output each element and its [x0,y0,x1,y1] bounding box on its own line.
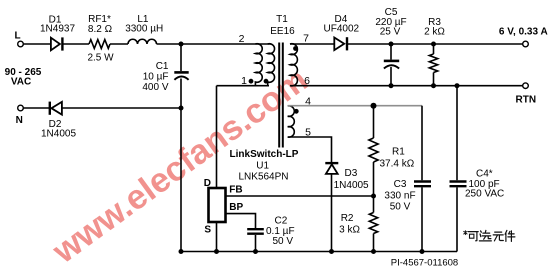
svg-text:2.5 W: 2.5 W [87,53,114,64]
label C4* 100pF 250VAC [465,169,504,200]
phasing dot pin1 col A [249,79,254,84]
junction bottom rail S [214,249,219,254]
secondary winding pins 7-6 [290,44,297,86]
svg-text:2 kΩ: 2 kΩ [424,27,445,38]
svg-text:1N4005: 1N4005 [41,129,76,140]
resistor R3 [429,44,437,86]
label RF1* 8.2ohm 2.5W [87,14,114,64]
label R2 3kohm [339,213,360,235]
junction R1 top [371,103,377,109]
resistor RF1 [89,40,110,49]
wire pin6 to RTN [290,85,523,87]
svg-text:FB: FB [229,185,242,196]
label LinkSwitch-LP U1 LNK564PN [230,149,299,183]
wire pin4 to C3 (gray) [288,105,422,107]
junction C4 top [455,83,460,88]
junction bottom rail C2 [253,249,258,254]
capacitor C4 [450,182,467,252]
svg-text:UF4002: UF4002 [324,24,360,35]
label C5 220uF 25V [375,7,406,38]
capacitor C1 [174,44,188,108]
svg-text:400 V: 400 V [142,82,168,93]
label optional component note [464,230,515,241]
wire RF1 to L1 [110,43,128,45]
diode D3 [325,163,338,174]
label C1 10uF 400V [142,61,169,93]
svg-text:U1: U1 [256,161,269,172]
svg-text:1N4005: 1N4005 [334,180,369,191]
phasing dot pin4 [294,109,299,114]
wire D1 to RF1 [62,43,89,45]
label D2 1N4005 [41,119,76,140]
resistor R2 [369,196,377,252]
svg-text:1N4937: 1N4937 [40,24,75,35]
wire L to D1 [23,43,50,45]
junction R3 top [431,42,436,47]
wire BP to C2 [226,214,256,228]
bottom rail [181,251,457,253]
svg-text:3 kΩ: 3 kΩ [339,224,360,235]
watermark www.elecfans.com [45,61,315,270]
junction FB node [371,194,376,199]
svg-text:RTN: RTN [516,94,537,105]
svg-text:R2: R2 [341,213,354,224]
U1 body [209,188,226,222]
terminal N [18,105,24,111]
phasing dot pin7 [293,46,298,51]
label D4 UF4002 [324,14,360,35]
svg-text:3300 µH: 3300 µH [125,24,163,35]
svg-text:C1: C1 [156,61,169,72]
diode D2 [50,102,62,115]
svg-text:8.2 Ω: 8.2 Ω [88,24,113,35]
svg-text:T1: T1 [276,14,288,25]
terminal output 6V [523,41,529,47]
junction C5 bottom [389,83,394,88]
label C2 0.1uF 50V [266,215,295,247]
junction bottom rail x181 [179,249,184,254]
primary winding column A [255,44,262,86]
label R1 37.4kohm [380,147,415,170]
svg-text:S: S [204,225,211,236]
wire FB to R1/R2 node [226,195,374,197]
inductor L1 [128,39,157,44]
svg-text:LinkSwitch-LP: LinkSwitch-LP [230,149,299,160]
junction N rail / C1 [179,106,184,111]
junction bottom rail D3 [329,249,334,254]
svg-text:10 µF: 10 µF [143,72,169,83]
svg-text:C2: C2 [275,215,288,226]
capacitor C2 [247,229,264,251]
svg-text:EE16: EE16 [270,26,295,37]
svg-text:L: L [14,31,20,42]
transformer core [279,43,283,148]
svg-text:BP: BP [229,202,243,213]
wire pin1 down to U1 drain [216,86,218,188]
svg-text:37.4 kΩ: 37.4 kΩ [380,159,415,170]
svg-text:250 VAC: 250 VAC [465,189,504,200]
junction bottom rail R2 [371,249,376,254]
wire C4 top lead [456,86,458,181]
svg-text:R1: R1 [392,147,405,158]
terminal L [18,41,24,47]
wire N to D2 [23,107,50,109]
wire D4 to output [347,43,523,45]
svg-text:330 nF: 330 nF [384,191,415,202]
svg-text:7: 7 [303,33,309,45]
wire L1 to transformer primary top [157,43,272,45]
junction bottom rail C3 [420,249,425,254]
resistor R1 [369,106,378,196]
svg-text:1: 1 [241,75,247,87]
wire C3 top lead [421,106,423,181]
wire C1 node down to bottom rail [180,108,182,252]
svg-text:6 V, 0.33 A: 6 V, 0.33 A [499,27,548,38]
svg-text:50 V: 50 V [390,202,411,213]
wire U1 source to bottom rail [216,222,218,252]
capacitor C3 [414,182,431,252]
svg-text:2: 2 [239,33,245,45]
junction C5 top [389,42,394,47]
junction top of C1 [179,42,184,47]
label L1 3300uH [125,14,163,35]
primary winding column B [268,44,275,86]
diode D1 [51,37,63,50]
label C3 330nF 50V [384,179,415,213]
wire pin5 to D3 [288,137,332,163]
svg-text:N: N [16,115,23,126]
svg-text:C3: C3 [394,179,407,190]
bias winding pins 4-5 [288,106,295,137]
label T1 EE16 [270,14,295,37]
svg-text:D: D [204,178,211,189]
capacitor C5 [384,44,399,86]
diode D4 [334,37,347,50]
phasing dot pin1 col B [264,79,269,84]
svg-text:LNK564PN: LNK564PN [238,172,288,183]
wire D3 to bottom rail [331,174,333,252]
svg-text:VAC: VAC [11,76,31,87]
terminal RTN [523,83,529,89]
svg-text:PI-4567-011608: PI-4567-011608 [391,258,458,269]
svg-text:D3: D3 [345,168,358,179]
svg-text:25 V: 25 V [380,27,401,38]
svg-text:50 V: 50 V [273,236,294,247]
wire pin7 to D4 [290,43,334,45]
primary bottom wire [217,85,270,87]
label 90-265 VAC [5,67,42,87]
junction R3 bottom [431,83,436,88]
wire D2 to node [62,107,181,109]
label D3 1N4005 [334,168,369,191]
label R3 2kohm [424,17,445,38]
label D1 1N4937 [40,15,75,35]
